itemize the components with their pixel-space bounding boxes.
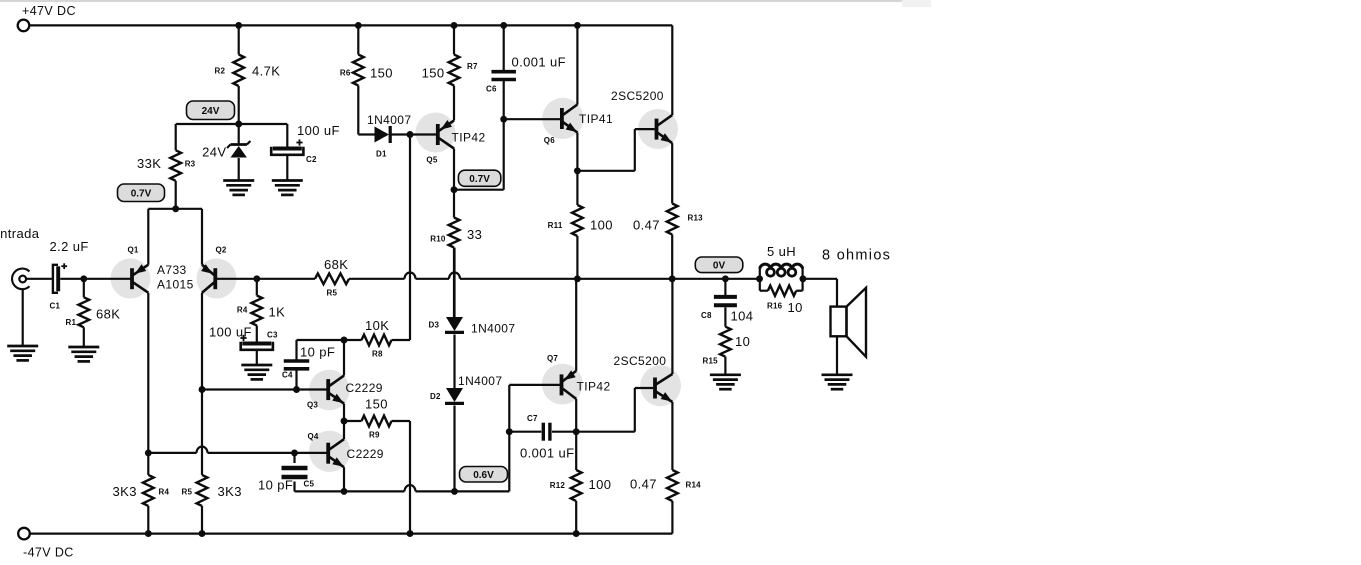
svg-text:R2: R2 [215, 67, 226, 76]
svg-text:10 pF: 10 pF [258, 478, 293, 493]
svg-text:+47V DC: +47V DC [22, 4, 76, 18]
svg-text:A1015: A1015 [157, 278, 194, 292]
svg-text:0.001 uF: 0.001 uF [512, 55, 567, 70]
svg-text:150: 150 [370, 66, 393, 81]
svg-text:C4: C4 [282, 371, 293, 380]
svg-text:R16: R16 [767, 302, 783, 311]
svg-text:R3: R3 [185, 160, 196, 169]
svg-text:Entrada: Entrada [0, 226, 40, 241]
svg-text:TIP42: TIP42 [577, 380, 611, 394]
svg-text:2SC5200: 2SC5200 [611, 89, 664, 103]
svg-text:R7: R7 [467, 62, 478, 71]
svg-text:10K: 10K [365, 318, 389, 333]
svg-text:D1: D1 [376, 150, 387, 159]
svg-text:C1: C1 [50, 302, 61, 311]
svg-text:R15: R15 [703, 357, 719, 366]
svg-text:Q7: Q7 [547, 354, 558, 363]
svg-text:8 ohmios: 8 ohmios [822, 248, 891, 264]
svg-text:100 uF: 100 uF [297, 123, 340, 138]
svg-text:5 uH: 5 uH [767, 244, 796, 259]
svg-text:68K: 68K [96, 307, 120, 322]
svg-text:33K: 33K [137, 156, 161, 171]
svg-text:R13: R13 [688, 214, 704, 223]
svg-text:10 pF: 10 pF [300, 345, 335, 360]
svg-text:3K3: 3K3 [218, 484, 242, 499]
svg-text:C5: C5 [304, 480, 315, 489]
svg-text:A733: A733 [157, 263, 187, 277]
svg-text:Q6: Q6 [544, 136, 555, 145]
svg-text:C2: C2 [306, 155, 317, 164]
svg-text:C6: C6 [486, 85, 497, 94]
svg-text:R9: R9 [369, 431, 380, 440]
svg-text:33: 33 [467, 227, 482, 242]
svg-text:R4: R4 [237, 306, 248, 315]
svg-text:TIP41: TIP41 [579, 112, 613, 126]
svg-text:R1: R1 [66, 318, 77, 327]
svg-text:C2229: C2229 [346, 381, 383, 395]
svg-text:Q2: Q2 [216, 246, 227, 255]
svg-text:C2229: C2229 [347, 447, 384, 461]
svg-text:C7: C7 [527, 414, 538, 423]
svg-text:R5: R5 [327, 289, 338, 298]
svg-text:100: 100 [590, 218, 613, 233]
svg-text:R10: R10 [430, 235, 446, 244]
svg-text:104: 104 [731, 309, 754, 324]
svg-text:0.47: 0.47 [633, 218, 660, 233]
svg-text:-47V DC: -47V DC [23, 546, 74, 560]
svg-text:D3: D3 [429, 321, 440, 330]
svg-text:100: 100 [589, 477, 612, 492]
svg-text:C3: C3 [267, 331, 278, 340]
svg-text:Q1: Q1 [128, 246, 139, 255]
svg-text:0.47: 0.47 [630, 477, 657, 492]
svg-text:24V: 24V [202, 145, 226, 160]
svg-text:D2: D2 [430, 392, 441, 401]
svg-text:0.7V: 0.7V [469, 174, 490, 185]
svg-text:10: 10 [735, 334, 750, 349]
svg-text:100 uF: 100 uF [209, 325, 252, 340]
svg-text:1N4007: 1N4007 [458, 374, 502, 388]
svg-text:R8: R8 [372, 350, 383, 359]
svg-text:10: 10 [788, 300, 803, 315]
svg-text:4.7K: 4.7K [252, 64, 280, 79]
svg-text:0V: 0V [713, 260, 726, 271]
svg-text:R6: R6 [340, 69, 351, 78]
svg-text:R5: R5 [182, 488, 193, 497]
svg-text:0.6V: 0.6V [473, 470, 494, 481]
svg-text:Q5: Q5 [426, 156, 437, 165]
svg-text:68K: 68K [324, 257, 348, 272]
svg-text:24V: 24V [202, 106, 220, 117]
svg-text:2.2 uF: 2.2 uF [50, 239, 89, 254]
svg-text:R14: R14 [686, 481, 702, 490]
svg-text:150: 150 [365, 397, 388, 412]
svg-text:1K: 1K [269, 305, 286, 320]
svg-text:R11: R11 [548, 221, 563, 230]
svg-text:C8: C8 [701, 311, 712, 320]
svg-text:3K3: 3K3 [113, 484, 137, 499]
svg-text:0.001 uF: 0.001 uF [520, 446, 575, 461]
svg-text:1N4007: 1N4007 [367, 113, 411, 127]
svg-text:1N4007: 1N4007 [471, 322, 515, 336]
svg-text:0.7V: 0.7V [131, 188, 152, 199]
svg-text:R12: R12 [550, 481, 566, 490]
svg-text:Q3: Q3 [307, 401, 318, 410]
svg-text:TIP42: TIP42 [452, 131, 486, 145]
svg-text:R4: R4 [159, 488, 170, 497]
svg-text:150: 150 [422, 66, 445, 81]
svg-text:2SC5200: 2SC5200 [614, 354, 667, 368]
svg-text:Q4: Q4 [308, 432, 319, 441]
